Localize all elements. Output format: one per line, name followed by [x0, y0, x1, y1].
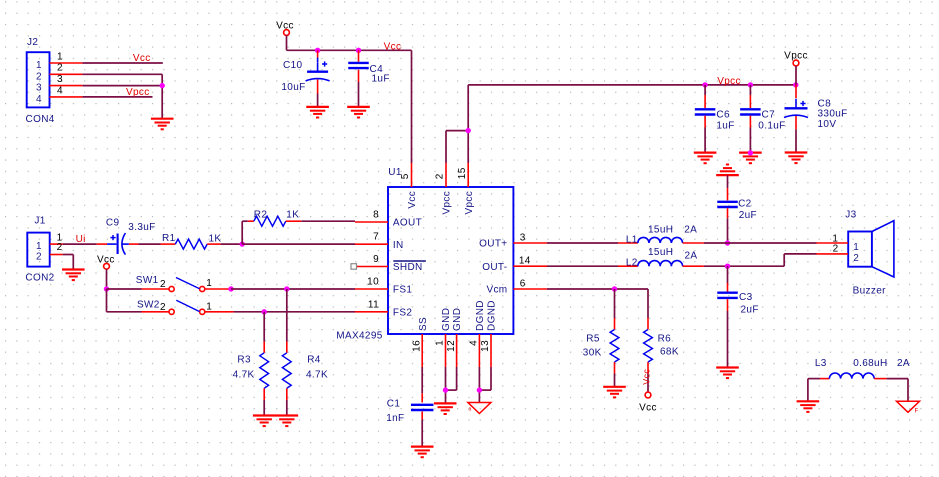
resistor R2 pin right [286, 220, 301, 222]
svg-text:4: 4 [36, 94, 42, 105]
net label Vpcc on J2 pin4 wire [126, 87, 150, 98]
capacitor C8 pin top [795, 85, 797, 98]
value 30K [583, 348, 602, 359]
designator L2 [626, 258, 638, 269]
capacitor C10 pin top [317, 50, 319, 62]
svg-text:GND: GND [452, 308, 463, 331]
svg-text:2: 2 [833, 244, 839, 255]
value MAX4295 [336, 330, 382, 341]
svg-text:L3: L3 [815, 358, 827, 369]
svg-text:SS: SS [418, 317, 429, 331]
svg-text:SHDN: SHDN [393, 262, 423, 273]
no-connect square on pin 9 [351, 264, 357, 270]
designator C9 [106, 218, 120, 229]
U1 pin 9 SHDN stub [357, 254, 389, 267]
resistor R4 pins [286, 289, 288, 416]
svg-text:1K: 1K [209, 233, 222, 244]
svg-text:2: 2 [853, 253, 859, 264]
value 10uF [281, 82, 305, 93]
svg-text:R5: R5 [586, 334, 600, 345]
wire R2 to U1 pin8 [301, 220, 355, 222]
svg-text:DGND: DGND [475, 300, 486, 331]
designator R6 [658, 334, 672, 345]
wire U1 DGND pins join [479, 367, 491, 403]
triangle ground DGND [468, 403, 491, 414]
designator C1 [387, 399, 401, 410]
wire U1 SS to C1 [421, 367, 423, 402]
designator C10 [283, 60, 302, 71]
designator J3 [845, 209, 856, 220]
inductor L3 pin right [874, 378, 886, 380]
wire SW1 to U1 FS1 [231, 288, 355, 290]
svg-text:C7: C7 [762, 110, 776, 121]
U1 pin 3 name OUT+ [479, 239, 507, 250]
designator L3 [815, 358, 827, 369]
resistor R1 symbol [175, 239, 207, 249]
value 2A L2 [685, 251, 698, 262]
svg-text:GND: GND [441, 308, 452, 331]
value 0.68uH [853, 358, 887, 369]
svg-text:Vpcc: Vpcc [464, 191, 475, 215]
svg-text:4.7K: 4.7K [306, 370, 328, 381]
U1 pin 14 name OUT- [482, 262, 507, 273]
triangle ground F right of L3 [897, 401, 920, 412]
designator U1 [388, 167, 402, 178]
svg-text:2: 2 [160, 302, 166, 313]
resistor R3 pins [263, 312, 265, 416]
designator R5 [586, 334, 600, 345]
ground below J2 wires [151, 119, 174, 130]
U1 pin 2 name Vpcc [442, 191, 453, 215]
U1 pin 4 DGND stub [469, 334, 480, 367]
net label Vcc rotated at R6 [641, 369, 651, 385]
wire J1 pin2 to ground [63, 255, 74, 270]
U1 pin 9 name SHDN with overline [393, 261, 426, 273]
power port Vcc left [97, 255, 115, 290]
svg-text:3: 3 [36, 83, 42, 94]
svg-text:2A: 2A [685, 251, 698, 262]
wire U1 pin2 to Vpcc node [446, 131, 468, 163]
svg-text:1: 1 [206, 278, 212, 289]
switch SW2 [142, 300, 205, 314]
wire Vcm from U1 [547, 288, 648, 290]
svg-text:SW2: SW2 [137, 300, 160, 311]
J3 pin 2 stub [817, 244, 849, 255]
svg-text:7: 7 [373, 232, 379, 243]
svg-text:10V: 10V [818, 119, 837, 130]
svg-text:C6: C6 [716, 110, 730, 121]
svg-text:15uH: 15uH [648, 225, 673, 236]
svg-text:11: 11 [368, 299, 379, 310]
svg-text:8: 8 [373, 210, 379, 221]
junction C3 at OUT- wire [725, 264, 730, 269]
svg-text:1K: 1K [286, 210, 299, 221]
svg-text:1uF: 1uF [716, 120, 734, 131]
junction R4 at FS1 wire [284, 286, 289, 291]
svg-text:AOUT: AOUT [393, 218, 422, 229]
svg-text:3: 3 [57, 74, 63, 85]
J1 pin 2 stub [50, 242, 63, 254]
resistor R6 symbol [644, 330, 653, 363]
connector J2 rectangle [27, 52, 50, 107]
designator C6 [716, 110, 730, 121]
J1 internal numbers [36, 241, 42, 262]
wire J2 pin1 to net Vcc [82, 62, 162, 64]
inductor L1 pin right [683, 242, 704, 244]
U1 pin 3 OUT+ stub [513, 232, 547, 243]
designator R2 [254, 210, 268, 221]
value 68K [660, 347, 679, 358]
svg-text:R4: R4 [307, 355, 321, 366]
C2 pin bottom [727, 208, 729, 243]
svg-text:1: 1 [206, 302, 212, 313]
svg-text:Vcm: Vcm [486, 285, 507, 296]
value 1nF [386, 413, 404, 424]
inductor L1 symbol [638, 237, 683, 243]
svg-text:CON4: CON4 [26, 114, 55, 125]
U1 pin 7 name IN [393, 240, 404, 251]
capacitor C2 symbol [717, 202, 738, 207]
designator C7 [762, 110, 776, 121]
U1 pin 11 FS2 stub [355, 299, 388, 312]
inductor L3 symbol [829, 373, 874, 379]
net label Vpcc on rail [717, 76, 741, 87]
junction C4 at Vcc rail [356, 48, 361, 53]
ground below L3 left [797, 401, 820, 412]
J3 internal numbers [853, 242, 859, 264]
ground below J1 [62, 270, 85, 281]
svg-text:Vcc: Vcc [133, 53, 151, 64]
wire J2 pin3 [82, 85, 162, 87]
wire Vcc rail top [287, 50, 412, 163]
U1 pin 10 FS1 stub [355, 277, 388, 290]
value 15uH L2 [648, 247, 673, 258]
wire junction up to R2 [242, 221, 248, 244]
capacitor C4 symbol [348, 63, 369, 68]
junction C6 at Vpcc rail [702, 82, 707, 87]
svg-text:Vcc: Vcc [639, 402, 657, 413]
junction pins 2-15 [466, 128, 471, 133]
svg-text:FS1: FS1 [393, 285, 412, 296]
svg-text:IN: IN [393, 240, 404, 251]
svg-text:C3: C3 [739, 292, 753, 303]
junction J2 ground node [160, 83, 165, 88]
svg-text:10: 10 [367, 277, 379, 288]
value 2uF C3 [741, 304, 759, 315]
wire J2 pin2 [82, 74, 162, 118]
C3 pin bottom [727, 299, 729, 367]
U1 pin 1 name GND [441, 308, 452, 331]
wire inverted ground to C2 [727, 175, 729, 200]
inductor L3 pin left [820, 378, 829, 380]
U1 pin 15 name Vpcc [464, 191, 475, 215]
svg-text:5: 5 [400, 173, 411, 179]
svg-text:J1: J1 [34, 215, 45, 226]
U1 pin 8 AOUT stub [355, 210, 388, 223]
designator SW2 [137, 300, 160, 311]
svg-text:Ui: Ui [76, 234, 86, 245]
inductor L2 pin left [618, 265, 638, 267]
svg-text:2: 2 [57, 242, 63, 253]
power port Vpcc [784, 51, 808, 85]
capacitor C7 symbol [740, 109, 761, 114]
svg-text:Vpcc: Vpcc [442, 191, 453, 215]
svg-text:R2: R2 [254, 210, 268, 221]
svg-text:DGND: DGND [487, 300, 498, 331]
svg-text:14: 14 [519, 256, 531, 267]
svg-text:OUT+: OUT+ [479, 239, 507, 250]
svg-text:9: 9 [373, 254, 379, 265]
svg-text:3.3uF: 3.3uF [128, 222, 155, 233]
junction SW1 wire [228, 286, 233, 291]
svg-text:Vpcc: Vpcc [126, 87, 150, 98]
ground below C1 [411, 447, 434, 458]
resistor R1 pin left [161, 243, 176, 245]
U1 pin 14 OUT- stub [513, 256, 547, 267]
svg-text:0.1uF: 0.1uF [758, 120, 785, 131]
svg-text:2A: 2A [684, 225, 697, 236]
U1 pin 13 name DGND [487, 300, 498, 331]
resistor R2 pin left [248, 220, 254, 222]
J2 pin 3 stub [50, 74, 83, 86]
U1 pin 8 name AOUT [393, 218, 422, 229]
SW1 pin 2 number [160, 279, 166, 290]
svg-text:Vpcc: Vpcc [717, 76, 741, 87]
ground below R5 [603, 387, 626, 398]
wire L3 right [887, 379, 908, 402]
net label Vcc on rail [384, 41, 402, 52]
value 3.3uF [128, 222, 155, 233]
designator J2 [27, 37, 38, 48]
J2 pin 4 stub [50, 85, 83, 97]
wire U1 GND pins join [446, 367, 457, 403]
resistor R3 symbol [260, 353, 269, 389]
wire U1 pin15 vertical Vpcc [467, 85, 469, 163]
svg-text:1: 1 [36, 60, 42, 71]
svg-text:R1: R1 [162, 233, 176, 244]
ground below C8 [785, 153, 808, 164]
designator R1 [162, 233, 176, 244]
C1 pin bottom [421, 411, 423, 446]
svg-text:15: 15 [457, 167, 468, 179]
wire J1 pin1 Ui [63, 243, 97, 245]
capacitor C4 pin top [358, 50, 360, 61]
svg-text:12: 12 [446, 340, 457, 352]
capacitor C6 symbol [695, 109, 716, 114]
wire Vcc to SW1 [107, 288, 142, 290]
junction R3 at FS2 wire [262, 309, 267, 314]
ground below R4 [276, 416, 299, 427]
ground below R3 [253, 416, 276, 427]
SW2 pin 2 number [160, 302, 166, 313]
svg-text:F: F [915, 408, 919, 414]
svg-text:68K: 68K [660, 347, 679, 358]
value 4.7K R3 [233, 370, 255, 381]
svg-text:1: 1 [36, 241, 42, 252]
designator R3 [237, 355, 251, 366]
SW2 pin 1 number [206, 302, 212, 313]
designator C3 [739, 292, 753, 303]
junction GND pins [443, 387, 448, 392]
junction on C7 ground [748, 150, 753, 155]
C7 pin bottom [749, 116, 751, 153]
svg-text:CON2: CON2 [25, 273, 54, 284]
svg-text:Vcc: Vcc [407, 191, 418, 209]
power port Vcc top [276, 20, 294, 50]
junction C2 at OUT+ wire [725, 240, 730, 245]
designator R4 [307, 355, 321, 366]
ground below C10 [306, 107, 329, 118]
U1 pin 10 name FS1 [393, 285, 412, 296]
U1 pin 12 name GND [452, 308, 463, 331]
J2 pin 1 stub [50, 51, 83, 63]
value 1uF C6 [716, 120, 734, 131]
svg-text:C1: C1 [387, 399, 401, 410]
op-amp U1 MAX4295 body [388, 187, 513, 334]
ground below C4 [347, 107, 370, 118]
inductor L2 symbol [638, 261, 683, 267]
capacitor C8 symbol [784, 99, 808, 118]
J2 pin 2 stub [50, 63, 83, 75]
ground below C3 [716, 368, 739, 379]
U1 pin 7 IN stub [355, 232, 388, 245]
designator J1 [34, 215, 45, 226]
svg-text:4: 4 [57, 85, 63, 96]
svg-text:0.68uH: 0.68uH [853, 358, 887, 369]
U1 pin 16 name SS [418, 317, 429, 331]
designator L1 [626, 235, 638, 246]
connector J3 buzzer body [848, 221, 894, 277]
SW2 output stub [205, 311, 234, 313]
C6 pin bottom [704, 116, 706, 153]
U1 pin 2 Vpcc stub [435, 163, 446, 187]
tiny net mark at DGND triangle [469, 407, 472, 413]
capacitor C9 symbol [118, 233, 129, 255]
capacitor C9 pin right [129, 243, 139, 245]
U1 pin 1 GND stub [435, 334, 446, 367]
svg-text:2: 2 [57, 63, 63, 74]
capacitor C6 pin top [704, 85, 706, 108]
resistor R2 symbol [254, 216, 286, 226]
SW1 pin 1 number [206, 278, 212, 289]
U1 pin 13 DGND stub [480, 334, 491, 367]
svg-text:30K: 30K [583, 348, 602, 359]
wire J2 pin4 to net Vpcc [82, 96, 152, 98]
wire L3 left [808, 379, 820, 402]
wire SW2 to U1 FS2 [234, 311, 355, 313]
svg-text:C10: C10 [283, 60, 302, 71]
designator C8 [818, 98, 832, 109]
wire L1 to buzzer pin1 [704, 242, 817, 244]
J1 pin 1 stub [50, 232, 63, 244]
resistor R4 symbol [282, 353, 291, 389]
value 15uH L1 [648, 225, 673, 236]
C10 plus sign [322, 61, 327, 66]
value CON2 [25, 273, 54, 284]
inductor L1 pin left [618, 242, 638, 244]
capacitor C9 pin left [97, 243, 117, 245]
U1 pin 5 name Vcc [407, 191, 418, 209]
svg-text:2uF: 2uF [741, 304, 759, 315]
svg-text:J2: J2 [27, 37, 38, 48]
wire C9 to R1 [139, 243, 161, 245]
U1 pin 6 Vcm stub [513, 278, 547, 289]
svg-text:1nF: 1nF [386, 413, 404, 424]
svg-text:C9: C9 [106, 218, 120, 229]
capacitor C10 symbol [306, 62, 330, 81]
resistor R5 pins [614, 289, 616, 387]
value 1K R2 [286, 210, 299, 221]
svg-text:2: 2 [36, 252, 42, 263]
junction C10 at Vcc rail [315, 48, 320, 53]
junction C7 at Vpcc rail [748, 82, 753, 87]
svg-text:1: 1 [57, 51, 63, 62]
svg-text:a: a [469, 407, 472, 413]
designator C4 [370, 64, 384, 75]
resistor R1 pin right [207, 243, 220, 245]
wire OUT- from U1 to L2 [547, 265, 618, 267]
U1 pin 4 name DGND [475, 300, 486, 331]
svg-text:R6: R6 [658, 334, 672, 345]
value CON4 [26, 114, 55, 125]
wire L2 to jog [704, 265, 784, 267]
svg-text:Buzzer: Buzzer [853, 286, 887, 297]
connector J1 rectangle [27, 233, 49, 267]
svg-text:6: 6 [520, 278, 526, 289]
designator SW1 [136, 275, 159, 286]
C8 pin bottom [795, 116, 797, 153]
J3 pin 1 stub [817, 234, 849, 245]
capacitor C3 symbol [717, 293, 738, 298]
svg-text:C2: C2 [738, 199, 752, 210]
U1 pin 5 Vcc stub [400, 163, 411, 187]
C9 plus sign [110, 235, 115, 240]
U1 pin 11 name FS2 [393, 307, 412, 318]
value 10V [818, 119, 837, 130]
C8 plus sign [800, 101, 805, 106]
C10 pin bottom [317, 80, 319, 107]
C3 pin top [727, 266, 729, 291]
junction Vcc switches [104, 286, 109, 291]
svg-text:4.7K: 4.7K [233, 370, 255, 381]
svg-text:R3: R3 [237, 355, 251, 366]
net label Vcc on J2 pin1 wire [133, 53, 151, 64]
svg-text:SW1: SW1 [136, 275, 159, 286]
value 4.7K R4 [306, 370, 328, 381]
U1 pin 6 name Vcm [486, 285, 507, 296]
svg-text:L1: L1 [626, 235, 638, 246]
net label Ui [76, 234, 86, 245]
svg-text:2: 2 [36, 71, 42, 82]
junction R1 R2 node [240, 241, 245, 246]
capacitor C1 symbol [411, 405, 434, 410]
svg-text:OUT-: OUT- [482, 262, 507, 273]
value 2uF C2 [739, 210, 757, 221]
wire R1 to junction [221, 243, 243, 245]
svg-text:2uF: 2uF [739, 210, 757, 221]
wire junction to U1 pin7 [242, 243, 355, 245]
value 1K R1 [209, 233, 222, 244]
SW1 output stub [205, 288, 231, 290]
value 1uF [372, 73, 390, 84]
wire Vpcc rail [468, 84, 796, 86]
resistor R6 pins [647, 289, 649, 392]
value 2A L1 [684, 225, 697, 236]
svg-text:L2: L2 [626, 258, 638, 269]
svg-text:3: 3 [520, 232, 526, 243]
svg-text:16: 16 [411, 340, 422, 352]
svg-text:2A: 2A [897, 358, 910, 369]
